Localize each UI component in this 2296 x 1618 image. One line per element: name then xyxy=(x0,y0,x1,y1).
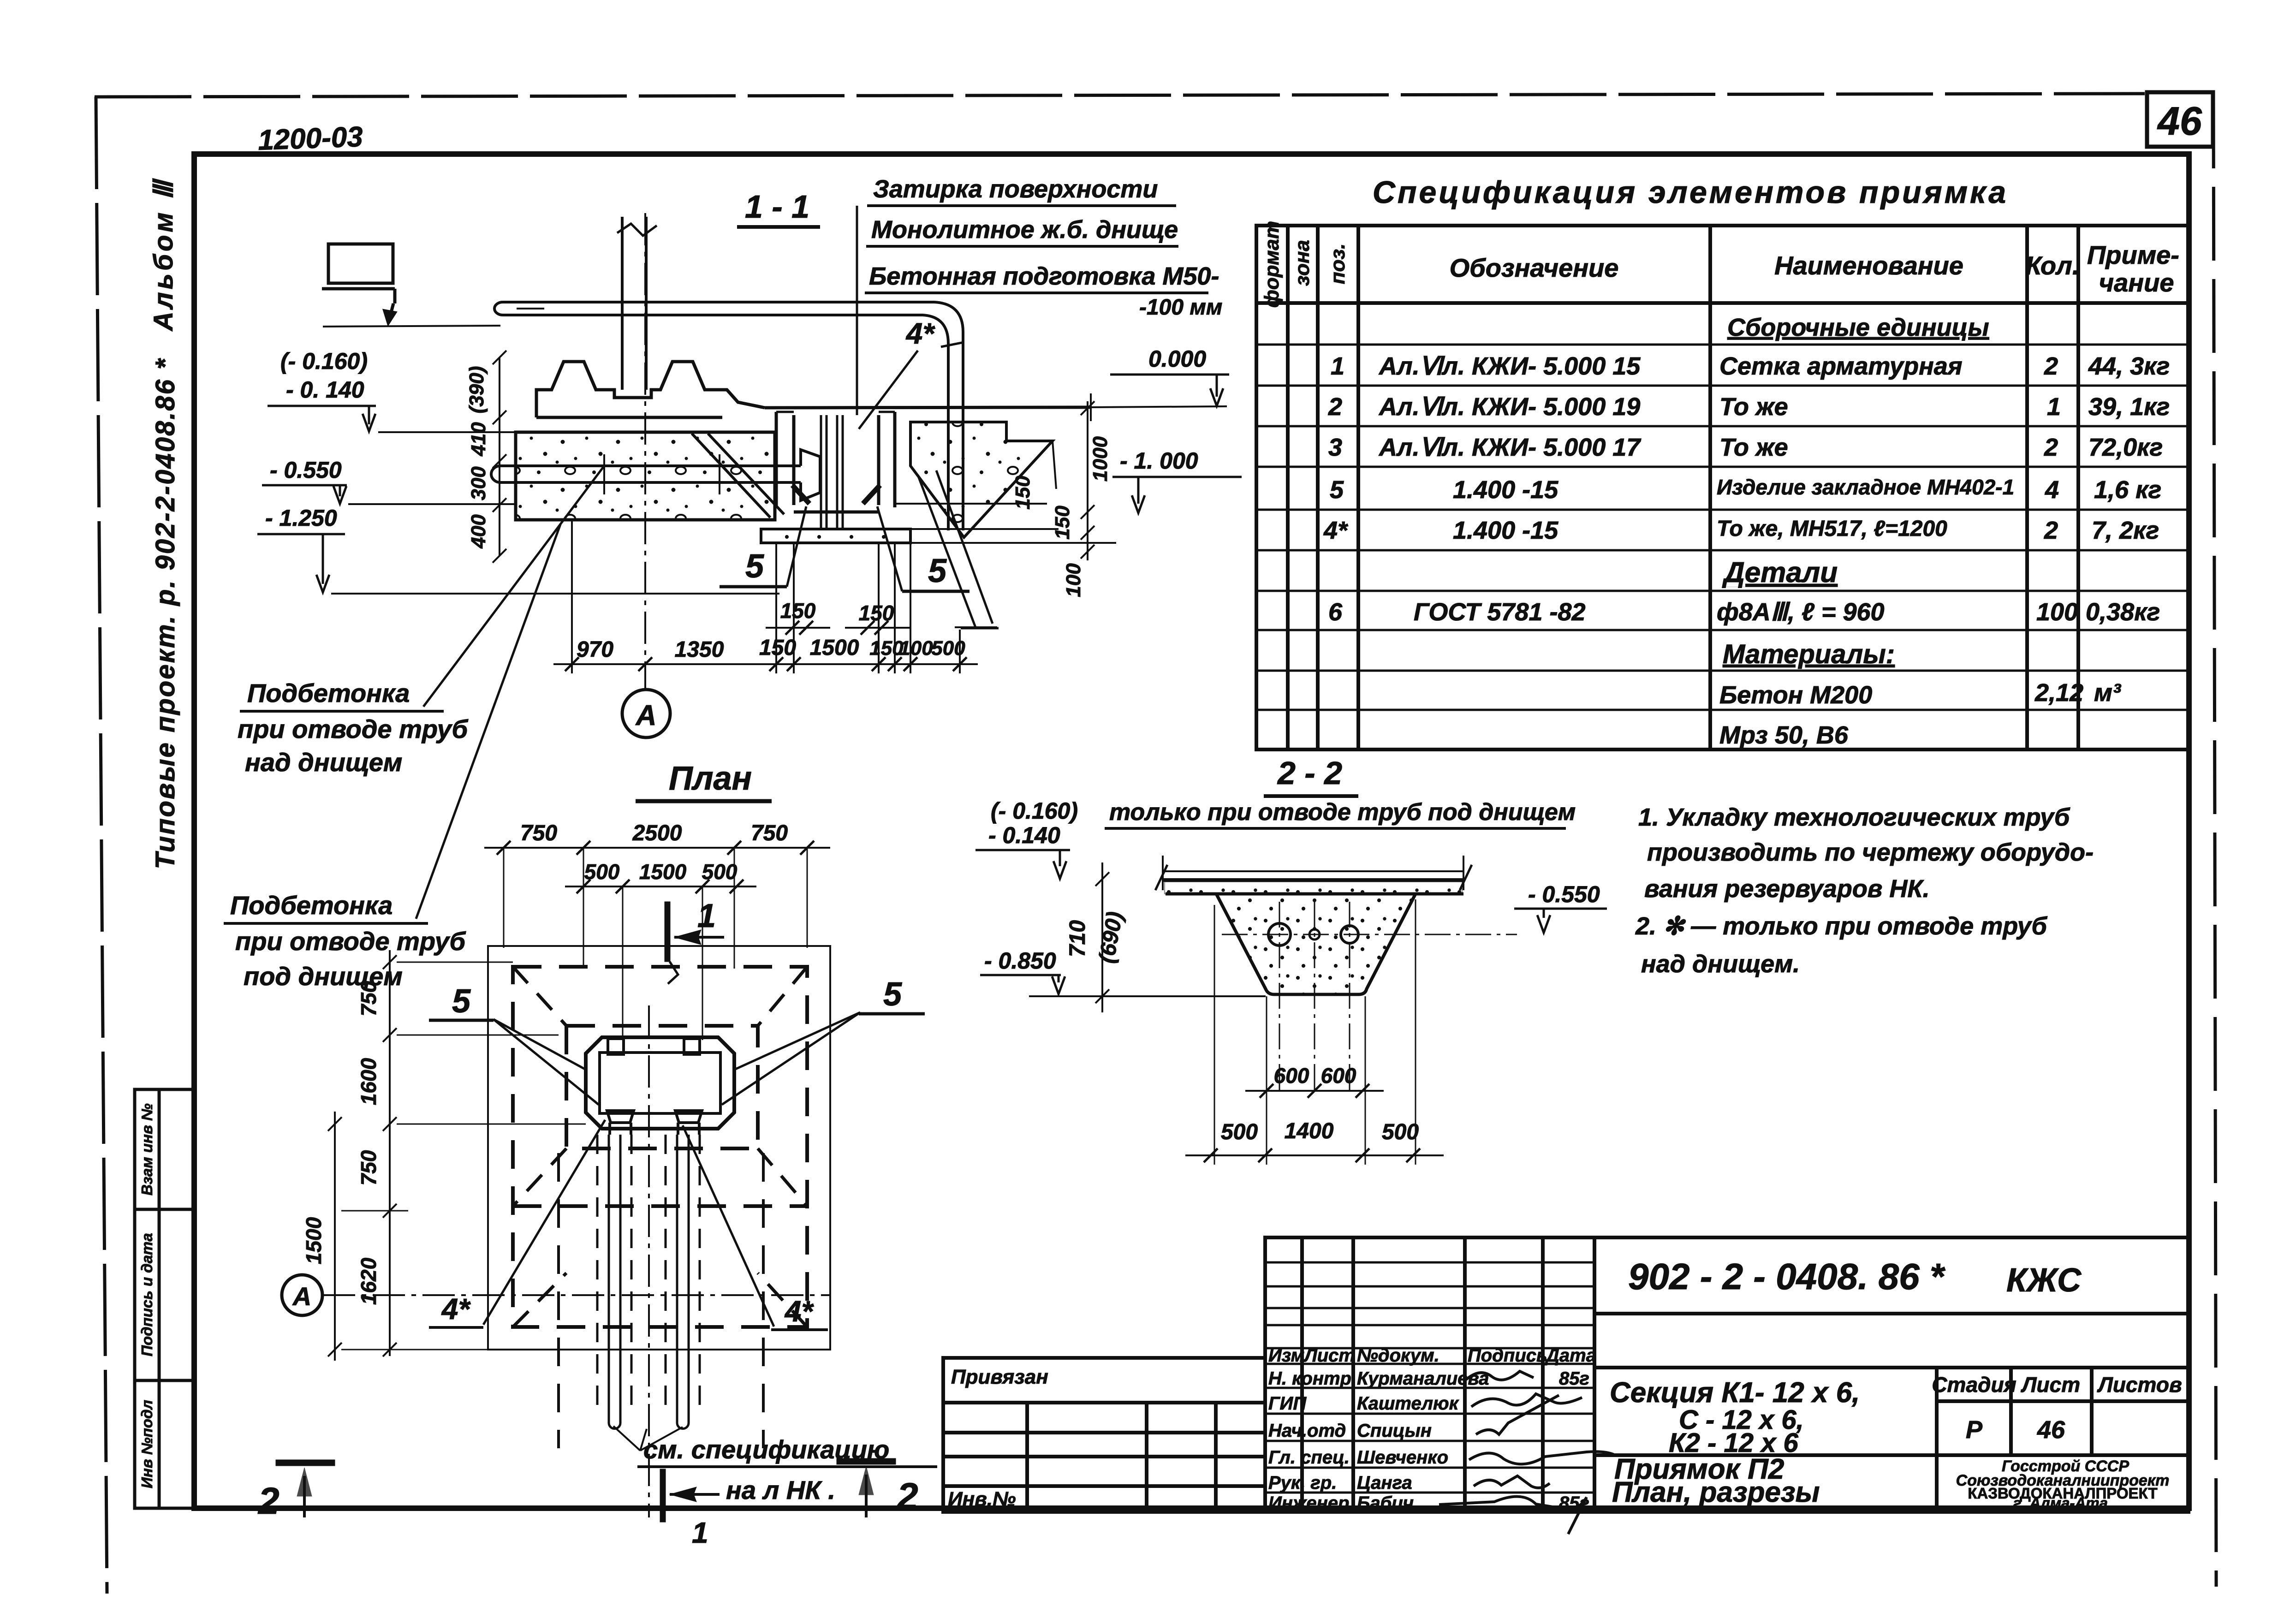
rows text xyxy=(1323,314,2170,749)
precast channel element (castle profile) xyxy=(536,362,765,417)
svg-text:2: 2 xyxy=(1328,393,1342,421)
section mark 1 (top) xyxy=(665,898,724,984)
top dim chain 500/1500/500 xyxy=(565,860,756,893)
svg-text:1500: 1500 xyxy=(639,860,687,884)
svg-text:4*: 4* xyxy=(905,317,936,350)
callout: Бетонная подготовка М50 xyxy=(865,262,1222,320)
middle dashed dig line xyxy=(513,1204,807,1208)
axis A horizontal xyxy=(323,1294,830,1296)
level tails right of pit xyxy=(895,504,1116,627)
svg-text:1. Укладку технологических т: 1. Укладку технологических труб xyxy=(1638,803,2070,831)
pos.5 label plan right xyxy=(722,976,925,1105)
svg-text:500: 500 xyxy=(931,637,965,660)
svg-text:1620: 1620 xyxy=(357,1257,381,1305)
svg-text:1: 1 xyxy=(2047,393,2061,421)
pos.4* label plan right xyxy=(683,1125,828,1330)
svg-text:Изделие закладное МН402-1: Изделие закладное МН402-1 xyxy=(1717,475,2014,499)
svg-text:при отводе труб: при отводе труб xyxy=(238,714,469,744)
svg-text:100: 100 xyxy=(2036,598,2078,626)
svg-text:над днищем: над днищем xyxy=(245,748,402,777)
inner dashed dig edge xyxy=(566,1026,758,1148)
svg-text:1.400 -15: 1.400 -15 xyxy=(1453,476,1558,504)
svg-text:410: 410 xyxy=(467,422,490,457)
svg-text:2. ✻ — только при отводе: 2. ✻ — только при отводе труб xyxy=(1635,912,2048,940)
trapezoid concrete body xyxy=(1216,894,1416,994)
svg-text:Бетонная подготовка М50-: Бетонная подготовка М50- xyxy=(869,262,1219,290)
svg-text:- 0.850: - 0.850 xyxy=(984,948,1056,974)
4* embeds bottom (trapezoid anchors) xyxy=(607,1111,702,1135)
svg-text:см. спецификацию: см. спецификацию xyxy=(643,1435,889,1464)
svg-text:(- 0.160): (- 0.160) xyxy=(991,798,1078,824)
pos.5 label left xyxy=(720,506,806,587)
svg-text:- 0.140: - 0.140 xyxy=(988,822,1060,848)
svg-text:Альбом Ⅲ: Альбом Ⅲ xyxy=(149,178,178,332)
svg-text:5: 5 xyxy=(1330,476,1344,504)
riser pipes below pit (dashed variant) xyxy=(597,1135,700,1416)
svg-text:2: 2 xyxy=(257,1480,280,1522)
section title 2-2 xyxy=(1264,755,1358,796)
svg-text:ГИП: ГИП xyxy=(1268,1393,1307,1414)
svg-text:То же: То же xyxy=(1719,434,1788,461)
svg-text:Секция К1- 12 х 6,: Секция К1- 12 х 6, xyxy=(1610,1377,1860,1409)
svg-text:7, 2кг: 7, 2кг xyxy=(2092,517,2159,544)
svg-text:1: 1 xyxy=(1331,352,1344,380)
svg-text:2: 2 xyxy=(2044,434,2058,461)
small 150 dims above bottom chain xyxy=(766,599,911,635)
svg-text:2: 2 xyxy=(2044,352,2058,380)
vertical dim 710 (690) xyxy=(1065,863,1128,1012)
svg-text:- 0.550: - 0.550 xyxy=(1528,881,1600,907)
svg-text:Ал.Ⅵл. КЖИ- 5.000 15: Ал.Ⅵл. КЖИ- 5.000 15 xyxy=(1378,352,1641,380)
mini revision grid verticals xyxy=(1300,1237,1304,1512)
elevation -0.550 left xyxy=(262,457,516,504)
svg-text:150: 150 xyxy=(869,637,904,660)
elevation -0.850 xyxy=(980,948,1266,996)
svg-text:Инв.№: Инв.№ xyxy=(948,1488,1016,1511)
label Подбетонка (над днищем) xyxy=(238,466,604,777)
reference flag rectangle top-left xyxy=(322,244,395,323)
elevation 0.000 right xyxy=(1110,346,1229,406)
svg-text:750: 750 xyxy=(357,1150,381,1185)
svg-text:1400: 1400 xyxy=(1285,1119,1334,1143)
svg-text:Материалы:: Материалы: xyxy=(1723,639,1895,669)
dim extension lines top xyxy=(504,848,807,1040)
svg-text:Мрз 50, В6: Мрз 50, В6 xyxy=(1719,721,1849,749)
svg-text:Кол.: Кол. xyxy=(2026,251,2080,280)
svg-text:Каштелюк: Каштелюк xyxy=(1357,1393,1459,1414)
axis line to pipe xyxy=(323,326,500,327)
svg-text:г. Алма-Ата.: г. Алма-Ата. xyxy=(2013,1494,2112,1511)
extension verticals bottom xyxy=(1214,899,1416,1165)
callout: Монолитное ж.б. днище xyxy=(866,216,1178,246)
header labels xyxy=(1261,221,1349,308)
svg-text:№докум.: №докум. xyxy=(1357,1345,1439,1366)
outer dashed dig edge xyxy=(513,967,807,1327)
svg-text:Спицын: Спицын xyxy=(1357,1421,1432,1441)
svg-text:Р: Р xyxy=(1966,1416,1983,1444)
svg-text:0,38кг: 0,38кг xyxy=(2086,598,2160,626)
svg-text:300: 300 xyxy=(467,466,490,500)
svg-text:Типовые проект. р. 902-2-0408: Типовые проект. р. 902-2-0408.86 * xyxy=(150,357,180,869)
inner frame xyxy=(194,154,2189,1508)
svg-text:Взам инв №: Взам инв № xyxy=(138,1103,155,1196)
svg-text:72,0кг: 72,0кг xyxy=(2088,434,2163,461)
svg-text:1,6 кг: 1,6 кг xyxy=(2094,476,2161,504)
svg-text:Ал.Ⅵл. КЖИ- 5.000 19: Ал.Ⅵл. КЖИ- 5.000 19 xyxy=(1378,393,1640,421)
svg-text:Спецификация элементов приямк: Спецификация элементов приямка xyxy=(1373,175,2008,210)
svg-text:Лист: Лист xyxy=(2021,1373,2080,1397)
svg-text:1: 1 xyxy=(692,1516,708,1549)
svg-text:Подпись: Подпись xyxy=(1468,1345,1547,1366)
svg-text:2: 2 xyxy=(2044,517,2058,544)
pos.5 label plan left xyxy=(429,983,599,1105)
label Подбетонка (под днищем) xyxy=(224,524,560,991)
svg-text:0.000: 0.000 xyxy=(1148,346,1206,372)
svg-text:Листов: Листов xyxy=(2097,1373,2182,1397)
plan title xyxy=(636,760,772,801)
svg-text:2: 2 xyxy=(896,1475,918,1517)
elevation -0.550 xyxy=(1514,881,1607,933)
svg-text:Сетка арматурная: Сетка арматурная xyxy=(1719,352,1963,380)
svg-text:Дата: Дата xyxy=(1545,1345,1596,1366)
svg-text:100: 100 xyxy=(899,637,933,660)
svg-text:То же, МН517, ℓ=1200: То же, МН517, ℓ=1200 xyxy=(1717,517,1947,541)
svg-text:710: 710 xyxy=(1065,920,1090,957)
dim chain 500/1400/500 xyxy=(1185,1119,1444,1162)
svg-text:(- 0.160): (- 0.160) xyxy=(280,348,368,374)
svg-text:зона: зона xyxy=(1291,240,1314,286)
svg-text:600: 600 xyxy=(1321,1064,1356,1088)
pit walls xyxy=(776,412,895,512)
left margin vertical texts xyxy=(149,178,180,869)
mid pipe through slab xyxy=(491,450,820,500)
svg-text:150: 150 xyxy=(759,636,796,660)
svg-text:400: 400 xyxy=(467,514,490,549)
top dim chain 750/2500/750 xyxy=(484,821,830,855)
svg-text:500: 500 xyxy=(584,860,620,884)
svg-text:970: 970 xyxy=(577,637,613,662)
svg-text:4*: 4* xyxy=(1323,517,1349,544)
elevation -1.000 right xyxy=(1112,448,1242,513)
svg-text:вания резервуаров НК.: вания резервуаров НК. xyxy=(1644,875,1930,903)
svg-text:Инженер: Инженер xyxy=(1268,1493,1349,1513)
svg-text:5: 5 xyxy=(883,976,902,1013)
section mark 2 (left) xyxy=(257,1460,335,1522)
svg-text:1.400 -15: 1.400 -15 xyxy=(1453,517,1558,544)
svg-text:Нач.отд: Нач.отд xyxy=(1268,1421,1346,1441)
svg-text:902 - 2 - 0408. 86 *: 902 - 2 - 0408. 86 * xyxy=(1628,1256,1946,1297)
svg-text:100: 100 xyxy=(1062,563,1085,597)
svg-text:39, 1кг: 39, 1кг xyxy=(2088,393,2170,421)
svg-text:План, разрезы: План, разрезы xyxy=(1612,1476,1820,1508)
left vertical dim chain (390)/410/300/400 xyxy=(493,351,506,563)
svg-text:750: 750 xyxy=(520,821,557,845)
svg-text:(690): (690) xyxy=(1094,910,1128,965)
svg-text:1000: 1000 xyxy=(1089,436,1112,482)
svg-text:2500: 2500 xyxy=(632,821,682,845)
svg-text:500: 500 xyxy=(1221,1120,1258,1144)
svg-text:5: 5 xyxy=(452,983,471,1020)
horizontal pipe with bend (Г-shape) xyxy=(494,302,963,530)
signatures squiggles xyxy=(1439,1371,1614,1534)
svg-text:ИзмЛист: ИзмЛист xyxy=(1268,1345,1355,1366)
svg-text:3: 3 xyxy=(1328,434,1342,461)
svg-text:1200-03: 1200-03 xyxy=(257,121,363,156)
subtitle xyxy=(1105,799,1576,828)
svg-text:То же: То же xyxy=(1719,393,1788,421)
svg-text:- 0. 140: - 0. 140 xyxy=(286,377,364,403)
svg-text:Детали: Детали xyxy=(1722,557,1838,589)
svg-text:Подбетонка: Подбетонка xyxy=(230,891,393,920)
left attribute boxes xyxy=(135,1089,194,1508)
svg-text:150: 150 xyxy=(1051,506,1074,540)
svg-text:Бабич: Бабич xyxy=(1357,1493,1414,1513)
svg-text:1500: 1500 xyxy=(302,1217,326,1264)
slab dotted strip xyxy=(1165,882,1462,894)
svg-text:1: 1 xyxy=(697,898,716,934)
pit plan octagon xyxy=(586,1037,734,1129)
svg-text:5: 5 xyxy=(928,553,947,589)
svg-text:-100 мм: -100 мм xyxy=(1139,295,1222,320)
pipe axis lines xyxy=(1222,902,1517,1093)
top slab lines xyxy=(1155,856,1472,894)
section title 1-1 xyxy=(737,189,820,227)
svg-text:750: 750 xyxy=(357,981,381,1016)
bottom dim chain 970/1350/150/1500/150/100/500 xyxy=(553,520,978,673)
svg-text:150: 150 xyxy=(859,601,894,625)
svg-text:на л НК .: на л НК . xyxy=(726,1475,835,1505)
callout: Затирка поверхности xyxy=(867,175,1176,206)
svg-text:Ал.Ⅵл. КЖИ- 5.000 17: Ал.Ⅵл. КЖИ- 5.000 17 xyxy=(1378,434,1642,461)
svg-text:600: 600 xyxy=(1274,1064,1309,1088)
svg-text:2,12: 2,12 xyxy=(2034,679,2083,707)
centerline axis A xyxy=(644,213,646,689)
svg-text:5: 5 xyxy=(745,548,764,585)
svg-text:А: А xyxy=(635,700,657,732)
svg-text:Н. контр: Н. контр xyxy=(1268,1368,1351,1389)
see specification note xyxy=(613,1426,937,1505)
pos.4* label plan left xyxy=(429,1120,605,1327)
section flag 1 (bottom) xyxy=(660,1469,720,1549)
svg-text:Инв №подл: Инв №подл xyxy=(138,1400,155,1488)
pos.5 label right xyxy=(877,506,970,591)
plan centerline vertical xyxy=(648,1005,650,1517)
svg-text:1 - 1: 1 - 1 xyxy=(745,189,809,225)
svg-text:150: 150 xyxy=(1011,476,1034,510)
vertical pipe at top xyxy=(617,217,657,390)
circle A plan xyxy=(282,1275,322,1315)
outer left chain 1500 xyxy=(302,1112,342,1361)
svg-text:План: План xyxy=(669,760,752,797)
svg-text:Гл. спец.: Гл. спец. xyxy=(1268,1447,1350,1468)
slab top line right xyxy=(765,393,1227,421)
svg-text:Приме-: Приме- xyxy=(2087,240,2179,269)
page number 46 box xyxy=(2147,92,2213,147)
svg-text:Цанга: Цанга xyxy=(1357,1473,1412,1493)
svg-text:формат: формат xyxy=(1261,221,1283,308)
svg-text:46: 46 xyxy=(2037,1416,2065,1444)
svg-text:чание: чание xyxy=(2099,268,2174,297)
pit floor bedding strip xyxy=(761,529,910,543)
svg-text:Шевченко: Шевченко xyxy=(1357,1447,1448,1468)
elevation (-0.160)/-0.140 left xyxy=(268,348,516,432)
svg-text:4: 4 xyxy=(2045,476,2059,504)
outer of main stamp xyxy=(1265,1237,2189,1512)
svg-text:Подбетонка: Подбетонка xyxy=(247,678,410,708)
pipe circles xyxy=(1268,923,1358,946)
svg-text:1350: 1350 xyxy=(675,637,724,662)
pit plan inner wall xyxy=(600,1053,720,1113)
svg-text:750: 750 xyxy=(751,821,788,845)
elevation -1.250 left xyxy=(257,505,779,594)
riser pipes below pit (solid) xyxy=(609,1135,689,1428)
embed squares on top edge xyxy=(608,1039,624,1054)
svg-text:при отводе труб: при отводе труб xyxy=(235,927,466,956)
svg-text:Бетон М200: Бетон М200 xyxy=(1719,681,1872,709)
svg-text:44, 3кг: 44, 3кг xyxy=(2088,352,2170,380)
svg-text:ГОСТ 5781 -82: ГОСТ 5781 -82 xyxy=(1414,598,1586,626)
svg-text:2 - 2: 2 - 2 xyxy=(1277,755,1342,791)
svg-text:500: 500 xyxy=(1382,1120,1419,1144)
svg-text:Наименование: Наименование xyxy=(1774,251,1963,280)
in-pit risers xyxy=(821,415,843,529)
circle A column mark xyxy=(622,690,670,738)
svg-text:над днищем.: над днищем. xyxy=(1641,950,1800,978)
svg-text:- 1.250: - 1.250 xyxy=(265,505,337,531)
svg-text:46: 46 xyxy=(2157,99,2202,143)
svg-text:Подпись и дата: Подпись и дата xyxy=(138,1233,155,1356)
svg-text:- 0.550: - 0.550 xyxy=(270,457,342,483)
svg-text:6: 6 xyxy=(1328,598,1343,626)
svg-text:м³: м³ xyxy=(2094,679,2122,707)
svg-text:85г: 85г xyxy=(1559,1368,1589,1389)
pos.4* label xyxy=(859,317,964,429)
svg-text:1600: 1600 xyxy=(357,1058,381,1105)
svg-text:4*: 4* xyxy=(441,1292,471,1326)
slope corner diagonals xyxy=(513,967,807,1327)
callout leader line xyxy=(856,206,858,415)
dim chain 600/600 xyxy=(1245,1064,1384,1098)
svg-text:А: А xyxy=(292,1282,311,1311)
svg-text:Монолитное ж.б. днище: Монолитное ж.б. днище xyxy=(871,216,1178,244)
svg-text:150: 150 xyxy=(780,599,816,623)
svg-text:производить по чертежу обор: производить по чертежу оборудо- xyxy=(1647,839,2094,866)
svg-text:- 1. 000: - 1. 000 xyxy=(1120,448,1198,474)
svg-text:Привязан: Привязан xyxy=(951,1366,1048,1388)
svg-text:ф8АⅢ, ℓ = 960: ф8АⅢ, ℓ = 960 xyxy=(1717,598,1885,626)
elevation (-0.160)/-0.140 xyxy=(976,798,1078,879)
svg-text:поз.: поз. xyxy=(1326,244,1349,284)
monolithic slab concrete block (left) xyxy=(516,432,784,520)
outer dashed pipe run lines xyxy=(559,1153,763,1448)
excavation outer rectangle xyxy=(488,946,830,1350)
svg-text:Стадия: Стадия xyxy=(1932,1373,2016,1397)
section mark 2 (right) xyxy=(837,1458,918,1517)
svg-text:Обозначение: Обозначение xyxy=(1450,253,1619,282)
pit wall chamfer embeds (pos.5) xyxy=(792,485,880,504)
svg-text:Рук. гр.: Рук. гр. xyxy=(1268,1473,1337,1493)
svg-text:Затирка поверхности: Затирка поверхности xyxy=(873,175,1158,203)
left part of stamp xyxy=(943,1358,1265,1512)
left dim chain 750/1600/750/1620 xyxy=(341,950,586,1356)
svg-text:4*: 4* xyxy=(784,1295,815,1328)
svg-text:только при отводе труб под дни: только при отводе труб под днищем xyxy=(1109,799,1576,826)
svg-text:Сборочные единицы: Сборочные единицы xyxy=(1727,314,1989,341)
svg-text:500: 500 xyxy=(702,860,738,884)
bedding concrete wedge right xyxy=(910,422,1056,628)
svg-text:1500: 1500 xyxy=(810,636,859,660)
svg-text:(390): (390) xyxy=(465,366,488,414)
svg-text:КЖС: КЖС xyxy=(2006,1262,2082,1299)
right vertical dim chain 1000/150/100 xyxy=(1081,401,1094,560)
